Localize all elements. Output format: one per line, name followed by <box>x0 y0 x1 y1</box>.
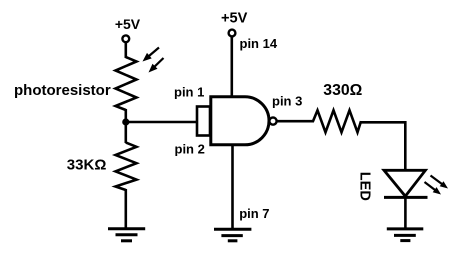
wire from left +5V terminal to photoresistor <box>125 42 128 58</box>
svg-text:photoresistor: photoresistor <box>14 82 111 99</box>
power terminal (left +5V) <box>122 35 129 42</box>
svg-text:pin 7: pin 7 <box>239 206 269 221</box>
LED D1 triangle <box>384 170 425 196</box>
svg-text:+5V: +5V <box>221 10 248 26</box>
photoresistor R1 zigzag <box>116 57 137 110</box>
svg-text:+5V: +5V <box>115 16 141 32</box>
svg-text:pin 2: pin 2 <box>175 142 205 157</box>
ground (left) <box>108 229 145 241</box>
node junction dot <box>122 118 129 125</box>
NAND gate input block <box>197 107 210 136</box>
power terminal (right +5V) <box>229 30 236 37</box>
light arrow 2 onto photoresistor <box>149 58 164 73</box>
NAND output inversion bubble <box>269 118 276 125</box>
resistor R3 330 zigzag <box>313 110 361 132</box>
svg-text:LED: LED <box>357 172 373 201</box>
LED cathode bar <box>384 196 428 199</box>
wire node to NAND inputs <box>126 121 197 124</box>
resistor R2 33K zigzag <box>116 143 137 191</box>
svg-text:330Ω: 330Ω <box>323 82 362 99</box>
wire LED to ground <box>404 197 407 229</box>
LED emission arrow 1 <box>431 176 449 189</box>
ground (middle, pin 7) <box>214 229 251 241</box>
wire pin 14 to +5V terminal <box>231 37 234 98</box>
wire pin 7 to ground <box>231 144 234 229</box>
wire 33K resistor to ground <box>125 189 128 229</box>
wire NAND output to 330 resistor <box>277 120 314 123</box>
svg-text:pin 1: pin 1 <box>174 85 204 100</box>
svg-text:pin 14: pin 14 <box>240 36 278 51</box>
ground (right) <box>387 229 424 241</box>
wire photoresistor to node <box>125 109 128 143</box>
wire 330 resistor to LED (corner) <box>360 122 405 171</box>
svg-text:33KΩ: 33KΩ <box>67 157 107 174</box>
LED emission arrow 2 <box>425 182 442 195</box>
svg-text:pin 3: pin 3 <box>272 93 302 108</box>
NAND gate U1 body <box>211 97 269 145</box>
light arrow 1 onto photoresistor <box>143 48 160 62</box>
